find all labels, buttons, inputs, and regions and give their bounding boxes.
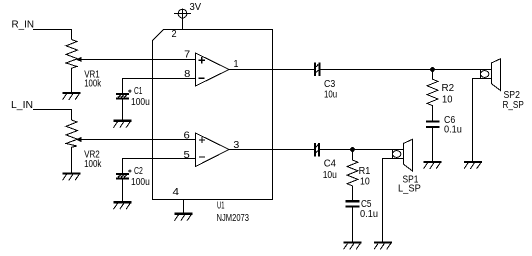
svg-text:R_IN: R_IN — [12, 20, 35, 31]
label SP2 R_SP — [503, 90, 525, 111]
op-amp U1B — [196, 133, 230, 167]
label C4 10u — [323, 159, 337, 181]
ground (VR2) — [63, 172, 81, 180]
label SP1 L_SP — [398, 174, 421, 194]
ground (C2) — [114, 201, 132, 209]
capacitor C2 100u (electrolytic) — [116, 169, 132, 201]
wire C4 to SP1 — [320, 149, 392, 151]
label VR1 100k — [84, 70, 102, 90]
svg-text:R2: R2 — [442, 83, 455, 94]
label U1 NJM2073 — [217, 201, 250, 225]
pin 1 — [234, 59, 239, 70]
pin 7 — [184, 50, 190, 61]
wire R_IN to VR1 top — [33, 30, 72, 40]
svg-text:1: 1 — [234, 59, 239, 70]
svg-text:10: 10 — [442, 95, 453, 106]
ground (SP2) — [464, 161, 482, 169]
label C3 10u — [324, 79, 337, 101]
label C6 0.1u — [444, 115, 462, 135]
svg-text:0.1u: 0.1u — [444, 125, 462, 136]
svg-text:100u: 100u — [131, 97, 150, 108]
svg-text:6: 6 — [184, 131, 191, 142]
IC U1 body — [153, 30, 273, 200]
svg-text:100k: 100k — [84, 159, 102, 170]
capacitor C5 0.1u — [346, 200, 360, 241]
svg-text:10u: 10u — [323, 170, 337, 181]
resistor R1 — [347, 150, 358, 201]
ground (VR1) — [63, 92, 81, 100]
potentiometer VR2 — [66, 120, 82, 172]
potentiometer VR1 — [66, 40, 82, 92]
svg-text:L_SP: L_SP — [398, 184, 421, 195]
capacitor C6 0.1u — [426, 121, 439, 161]
svg-text:8: 8 — [184, 69, 191, 80]
svg-text:L_IN: L_IN — [11, 100, 33, 111]
wire VR1 wiper to pin 7 — [79, 59, 196, 61]
pin 3 — [233, 140, 239, 151]
wire C3 to SP2 — [320, 69, 480, 71]
op-amp U1A — [196, 53, 230, 86]
svg-text:5: 5 — [184, 150, 191, 161]
svg-text:7: 7 — [184, 50, 190, 61]
label R1 10 — [359, 166, 371, 187]
wire pin 1 output to C3 — [229, 69, 314, 71]
svg-text:2: 2 — [172, 29, 178, 40]
svg-text:3V: 3V — [190, 2, 202, 13]
svg-text:C1: C1 — [134, 86, 143, 97]
power 3V — [174, 9, 191, 29]
junction node (L out) — [350, 147, 355, 152]
ground (C6) — [424, 161, 442, 169]
resistor R2 — [427, 70, 438, 121]
wire pin 8 to C1 — [123, 79, 196, 94]
wire pin 3 output to C4 — [229, 149, 314, 151]
pin 5 — [184, 150, 191, 161]
svg-text:NJM2073: NJM2073 — [217, 213, 250, 224]
wire pin 4 to ground — [183, 200, 185, 213]
label R2 10 — [442, 83, 455, 106]
wire L_IN to VR2 top — [33, 110, 72, 121]
svg-text:100u: 100u — [131, 177, 150, 188]
capacitor C1 100u (electrolytic) — [116, 90, 132, 120]
pin 4 — [173, 187, 180, 198]
ground (C5) — [344, 241, 362, 249]
svg-text:C2: C2 — [134, 166, 143, 177]
junction node (R out) — [430, 67, 435, 72]
label 3V — [190, 2, 202, 13]
svg-text:R_SP: R_SP — [503, 100, 525, 111]
svg-text:C3: C3 — [324, 79, 336, 90]
pin 8 — [184, 69, 191, 80]
node L_IN — [11, 100, 33, 111]
svg-text:C4: C4 — [324, 159, 337, 170]
node R_IN — [12, 20, 35, 31]
wire pin 5 to C2 — [123, 159, 196, 173]
pin 2 — [172, 29, 178, 40]
speaker SP1 — [383, 139, 413, 241]
label C1 100u — [131, 86, 150, 108]
ground (SP1) — [374, 241, 392, 249]
wire VR2 wiper to pin 6 — [79, 139, 196, 141]
label C2 100u — [131, 166, 150, 188]
svg-text:0.1u: 0.1u — [360, 209, 378, 220]
svg-text:4: 4 — [173, 187, 180, 198]
capacitor C4 10u — [314, 143, 320, 157]
svg-text:100k: 100k — [84, 79, 102, 90]
capacitor C3 10u — [314, 63, 320, 77]
pin 6 — [184, 131, 191, 142]
ground (pin 4) — [175, 213, 193, 221]
svg-text:10u: 10u — [324, 90, 337, 101]
label VR2 100k — [84, 150, 102, 170]
speaker SP2 — [473, 59, 501, 161]
svg-text:U1: U1 — [217, 201, 225, 212]
svg-text:10: 10 — [360, 176, 370, 187]
label C5 0.1u — [360, 199, 378, 220]
ground (C1) — [114, 120, 132, 128]
